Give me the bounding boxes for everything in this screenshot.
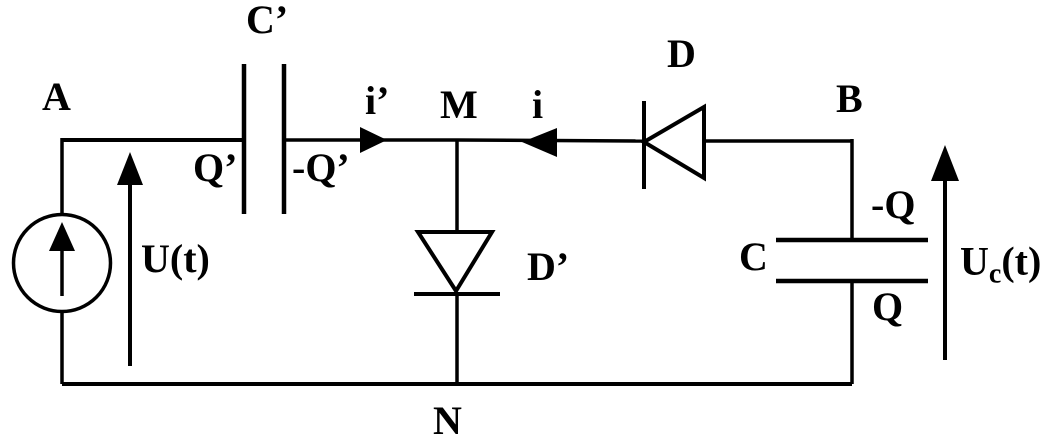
svg-text:C: C xyxy=(739,234,768,279)
svg-text:-Q: -Q xyxy=(871,182,915,227)
svg-text:i’: i’ xyxy=(365,78,389,123)
svg-text:M: M xyxy=(440,82,478,127)
wire left vertical from source bottom to bottom-left corner xyxy=(60,312,64,384)
svg-text:B: B xyxy=(836,76,863,121)
wire top segment from node A corner to capacitor C' left plate xyxy=(62,138,244,142)
wire right vertical from node B down to capacitor C top plate xyxy=(850,139,854,240)
capacitor C' plates xyxy=(244,64,284,214)
wire top segment from diode D anode to node B corner xyxy=(704,139,852,143)
svg-text:Uc(t): Uc(t) xyxy=(960,239,1041,290)
voltage arrow Uc(t) pointing up xyxy=(931,145,959,360)
wire vertical from diode D' cathode bar down to node N on bottom wire xyxy=(455,294,459,384)
voltage source U circle with internal arrow xyxy=(14,215,111,312)
diode D (triangle pointing left with cathode bar) xyxy=(644,101,704,189)
wire left vertical from node A down to source top xyxy=(60,138,64,214)
svg-text:C’: C’ xyxy=(246,0,288,42)
svg-text:D’: D’ xyxy=(527,244,569,289)
svg-text:A: A xyxy=(42,74,71,119)
voltage arrow U(t) pointing up xyxy=(117,152,143,366)
current arrow i head on wire pointing left xyxy=(522,128,557,157)
wire top segment from capacitor C' right plate to node M xyxy=(284,138,457,142)
wire bottom from bottom-left corner through node N to bottom-right corner xyxy=(62,382,852,386)
svg-text:D: D xyxy=(667,31,696,76)
svg-text:N: N xyxy=(433,398,462,443)
svg-text:Q’: Q’ xyxy=(193,145,237,190)
svg-text:Q: Q xyxy=(872,284,903,329)
wire top segment from node M to diode D cathode bar xyxy=(457,140,644,141)
diode D' (triangle pointing down with cathode bar) xyxy=(414,232,500,294)
wire right vertical from capacitor C bottom plate to bottom wire xyxy=(850,281,854,384)
current arrow i' head on wire pointing right xyxy=(360,127,387,153)
wire junction vertical from node M down to diode D' xyxy=(455,140,459,232)
capacitor C plates xyxy=(776,240,928,281)
svg-text:i: i xyxy=(532,82,543,127)
svg-text:-Q’: -Q’ xyxy=(292,145,350,190)
svg-text:U(t): U(t) xyxy=(141,236,210,281)
